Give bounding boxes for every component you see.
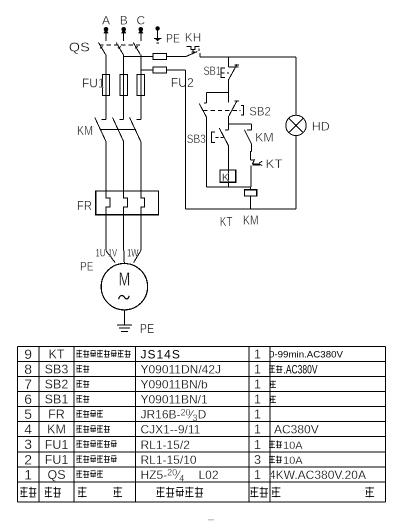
table row 2 (FU1) — [24, 451, 261, 467]
wire parallel branch top — [207, 91, 229, 93]
svg-text:1: 1 — [254, 437, 261, 452]
svg-text:SB1: SB1 — [204, 64, 222, 78]
svg-text:KT: KT — [49, 348, 65, 362]
svg-text:C: C — [136, 14, 145, 28]
bottom control rail — [185, 208, 296, 210]
svg-text:KM: KM — [77, 123, 93, 138]
svg-text:AC380V: AC380V — [274, 423, 319, 437]
wire node under KT coil — [207, 186, 251, 188]
KM linkage bar — [100, 129, 136, 131]
wire FU2b to left control rail — [166, 69, 185, 71]
svg-text:9: 9 — [24, 346, 32, 362]
wire tap from phase C to FU2b — [141, 69, 153, 71]
header xinghao ji guige (model & spec) — [157, 487, 204, 498]
PE terminal (top) — [154, 26, 162, 43]
ground below motor — [117, 310, 132, 332]
svg-text:CJX1--9/11: CJX1--9/11 — [141, 423, 201, 437]
pushbutton SB2 contact 2 (NO, left branch) — [199, 92, 206, 186]
svg-text:Y09011DN/42J: Y09011DN/42J — [141, 363, 222, 377]
svg-text:SB1: SB1 — [45, 393, 69, 407]
svg-text:Y09011BN/b: Y09011BN/b — [141, 378, 208, 392]
page mark (faint) — [208, 519, 214, 521]
svg-text:Y09011BN/1: Y09011BN/1 — [141, 393, 208, 407]
svg-text:7: 7 — [24, 376, 32, 392]
svg-text:FR: FR — [48, 408, 65, 422]
table row 5 (FR) — [24, 406, 261, 422]
svg-text:1: 1 — [254, 392, 261, 407]
fuse FU2 lower — [153, 67, 166, 73]
lamp HD branch wire — [295, 57, 297, 115]
svg-text:0-99min.AC380V: 0-99min.AC380V — [269, 350, 344, 361]
fuse FU1 pole — [102, 75, 109, 96]
wire SB2 bottom node — [229, 123, 252, 125]
remark white — [270, 381, 276, 388]
svg-text:A: A — [102, 14, 110, 28]
svg-text:FU1: FU1 — [82, 76, 105, 91]
fuse FU1 pole — [120, 75, 127, 96]
svg-text:4KW.AC380V.20A: 4KW.AC380V.20A — [269, 468, 366, 482]
table row 9 (KT) — [24, 346, 261, 362]
svg-text:B: B — [120, 14, 128, 28]
svg-text:M: M — [119, 268, 131, 289]
wire FU2a to KH — [166, 55, 186, 57]
svg-text:PE: PE — [140, 321, 155, 336]
switch QS pole B — [116, 41, 124, 75]
SB2 actuator bracket — [241, 105, 244, 115]
name text row 9 (chinese) — [76, 350, 130, 358]
svg-text:KM: KM — [255, 130, 274, 144]
svg-text:FU1: FU1 — [45, 453, 69, 467]
svg-text:3: 3 — [24, 436, 32, 452]
wire lamp to bottom rail — [295, 136, 297, 210]
svg-text:JS14S: JS14S — [141, 348, 181, 362]
svg-text:1: 1 — [254, 467, 261, 482]
remark red — [270, 396, 276, 403]
motor lead diagonals — [106, 251, 141, 264]
parts table grid — [18, 347, 386, 502]
table row 4 (KM) — [24, 421, 261, 437]
header zhu (remark 2nd char) — [366, 487, 375, 498]
svg-text:5: 5 — [24, 406, 32, 422]
svg-text:3: 3 — [254, 452, 261, 467]
svg-text:HD: HD — [312, 120, 330, 134]
name text row 4 (chinese) — [76, 425, 110, 433]
svg-text:FU2: FU2 — [171, 75, 194, 90]
QS mechanical linkage (dashed) — [99, 44, 140, 46]
contactor KM auxiliary contact — [244, 124, 251, 152]
remark green lamp AC380V — [269, 363, 318, 377]
SB2 linkage (dashed) — [203, 109, 240, 111]
svg-text:RL1-15/2: RL1-15/2 — [141, 438, 191, 452]
svg-text:.AC380V: .AC380V — [284, 363, 318, 377]
pushbutton SB2 contact 1 (NO) — [229, 92, 239, 124]
header ming (name) — [78, 487, 87, 498]
table row 7 (SB2) — [24, 376, 261, 392]
svg-text:SB3: SB3 — [45, 363, 69, 377]
header cheng (name 2nd char) — [114, 487, 123, 498]
svg-text:KM: KM — [47, 423, 66, 437]
switch QS pole C — [133, 41, 141, 75]
svg-text:4: 4 — [24, 421, 32, 437]
header xuhao (seq no) — [20, 487, 36, 498]
svg-text:6: 6 — [24, 391, 32, 407]
name text row 2 (chinese) — [76, 455, 117, 463]
motor M1 circle — [101, 264, 147, 310]
fuse FU2 upper — [153, 54, 166, 60]
svg-text:1W: 1W — [127, 247, 139, 259]
table row 6 (SB1) — [24, 391, 261, 407]
table row 1 (QS) — [24, 466, 261, 482]
svg-text:KT: KT — [266, 157, 284, 171]
fuse FU1 pole — [137, 75, 144, 96]
svg-text:K: K — [222, 172, 230, 184]
contactor KM main contact — [95, 96, 106, 192]
svg-text:1: 1 — [254, 407, 261, 422]
header shuliang (qty) — [250, 487, 268, 498]
header daihao (code) — [45, 487, 61, 498]
motor tilde ~ — [119, 295, 130, 299]
header bei (remark) — [272, 487, 281, 498]
svg-text:FR: FR — [77, 198, 92, 213]
svg-text:1: 1 — [254, 422, 261, 437]
thermal relay FR box — [96, 191, 159, 215]
FR heater element — [106, 191, 110, 215]
wire KT box to node — [228, 182, 230, 187]
name text row 8 (chinese) — [76, 365, 89, 373]
svg-text:1: 1 — [24, 466, 32, 482]
remark fuse link 10A (row 2) — [269, 455, 303, 467]
node C phase terminal — [136, 14, 145, 41]
svg-text:SB2: SB2 — [249, 105, 271, 119]
svg-text:10A: 10A — [283, 440, 303, 452]
svg-text:1U: 1U — [96, 247, 106, 259]
wire tap from phase B to FU2a — [124, 55, 153, 57]
svg-text:SB2: SB2 — [45, 378, 69, 392]
svg-text:KT: KT — [220, 214, 233, 229]
table row 8 (SB3) — [24, 361, 261, 377]
SB3 linkage (dashed) — [215, 136, 223, 138]
left control rail — [184, 70, 186, 209]
svg-text:10A: 10A — [283, 455, 303, 467]
svg-text:FU1: FU1 — [45, 438, 69, 452]
svg-text:1: 1 — [254, 362, 261, 377]
name text row 1 (chinese) — [76, 470, 103, 478]
name text row 5 (chinese) — [76, 410, 103, 418]
time relay KT delayed contact — [250, 152, 262, 187]
pushbutton SB3 (NO) — [219, 124, 228, 187]
svg-text:PE: PE — [166, 31, 180, 45]
name text row 7 (chinese) — [76, 380, 89, 388]
svg-text:2: 2 — [24, 451, 32, 467]
switch QS pole A — [99, 41, 107, 75]
svg-text:1V: 1V — [108, 247, 117, 259]
node B phase terminal — [120, 14, 128, 41]
FR heater element — [141, 191, 145, 215]
svg-text:1: 1 — [254, 347, 261, 362]
FR heater element — [124, 191, 128, 215]
wire KH to HD rail (top control bus) — [200, 56, 296, 58]
svg-text:PE: PE — [80, 260, 94, 274]
svg-text:RL1-15/10: RL1-15/10 — [141, 453, 197, 467]
thermal relay contact KH — [187, 46, 200, 57]
name text row 6 (chinese) — [76, 395, 89, 403]
lamp HD — [286, 115, 306, 135]
svg-text:1: 1 — [254, 377, 261, 392]
time relay coil KT box — [220, 170, 236, 184]
pushbutton SB1 (NC stop) — [221, 57, 239, 93]
svg-text:QS: QS — [47, 468, 65, 482]
node A phase terminal — [102, 14, 110, 41]
table row 3 (FU1) — [24, 436, 261, 452]
svg-text:KM: KM — [243, 213, 259, 228]
svg-text:KH: KH — [185, 30, 202, 44]
svg-text:8: 8 — [24, 361, 32, 377]
wire FR to motor leads — [106, 215, 141, 251]
contactor KM main contact — [113, 96, 124, 192]
name text row 3 (chinese) — [76, 440, 117, 448]
contactor KM main contact — [130, 96, 141, 192]
contactor coil KM — [245, 187, 257, 209]
remark fuse link 10A (row 3) — [269, 440, 303, 452]
SB3 actuator bracket — [211, 132, 215, 142]
svg-text:SB3: SB3 — [187, 132, 206, 146]
svg-text:JR16B-20⁄3D: JR16B-20⁄3D — [141, 407, 207, 423]
svg-text:QS: QS — [69, 39, 90, 54]
